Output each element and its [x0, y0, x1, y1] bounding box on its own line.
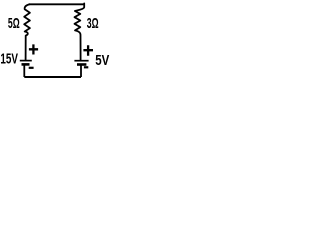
battery V1 long plate: [20, 60, 32, 62]
wire bottom horizontal: [24, 76, 81, 78]
svg-text:3Ω: 3Ω: [87, 15, 99, 32]
wire top horizontal: [29, 3, 84, 5]
wire V2 to bottom: [80, 65, 82, 77]
svg-text:15V: 15V: [0, 50, 18, 67]
battery V1 plus sign: [29, 44, 38, 54]
resistor R2 3-ohm squiggle: [75, 3, 85, 59]
battery V1 short plate: [22, 63, 30, 66]
battery V1 minus sign: [29, 67, 34, 69]
battery V2 minus sign: [84, 66, 88, 68]
svg-text:5V: 5V: [95, 52, 109, 69]
battery V2 plus sign: [83, 45, 93, 56]
battery V2 long plate: [74, 60, 88, 62]
wire V1 to bottom: [23, 65, 25, 77]
svg-text:5Ω: 5Ω: [8, 15, 20, 32]
battery V2 short plate: [77, 63, 86, 66]
resistor R1 5-ohm squiggle: [24, 4, 30, 60]
